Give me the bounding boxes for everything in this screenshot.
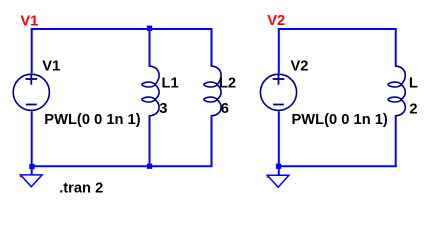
svg-text:6: 6 [221, 101, 229, 117]
svg-text:3: 3 [159, 101, 167, 117]
svg-text:PWL(0 0 1n 1): PWL(0 0 1n 1) [292, 112, 388, 128]
svg-text:V2: V2 [267, 13, 285, 29]
svg-text:2: 2 [409, 102, 417, 118]
svg-text:V1: V1 [42, 59, 60, 75]
svg-text:L: L [409, 76, 418, 92]
svg-text:L2: L2 [219, 76, 236, 92]
svg-text:V2: V2 [291, 59, 309, 75]
svg-text:V1: V1 [20, 13, 38, 29]
svg-text:.tran 2: .tran 2 [59, 181, 103, 197]
svg-text:PWL(0 0 1n 1): PWL(0 0 1n 1) [44, 112, 140, 128]
svg-text:L1: L1 [162, 76, 179, 92]
